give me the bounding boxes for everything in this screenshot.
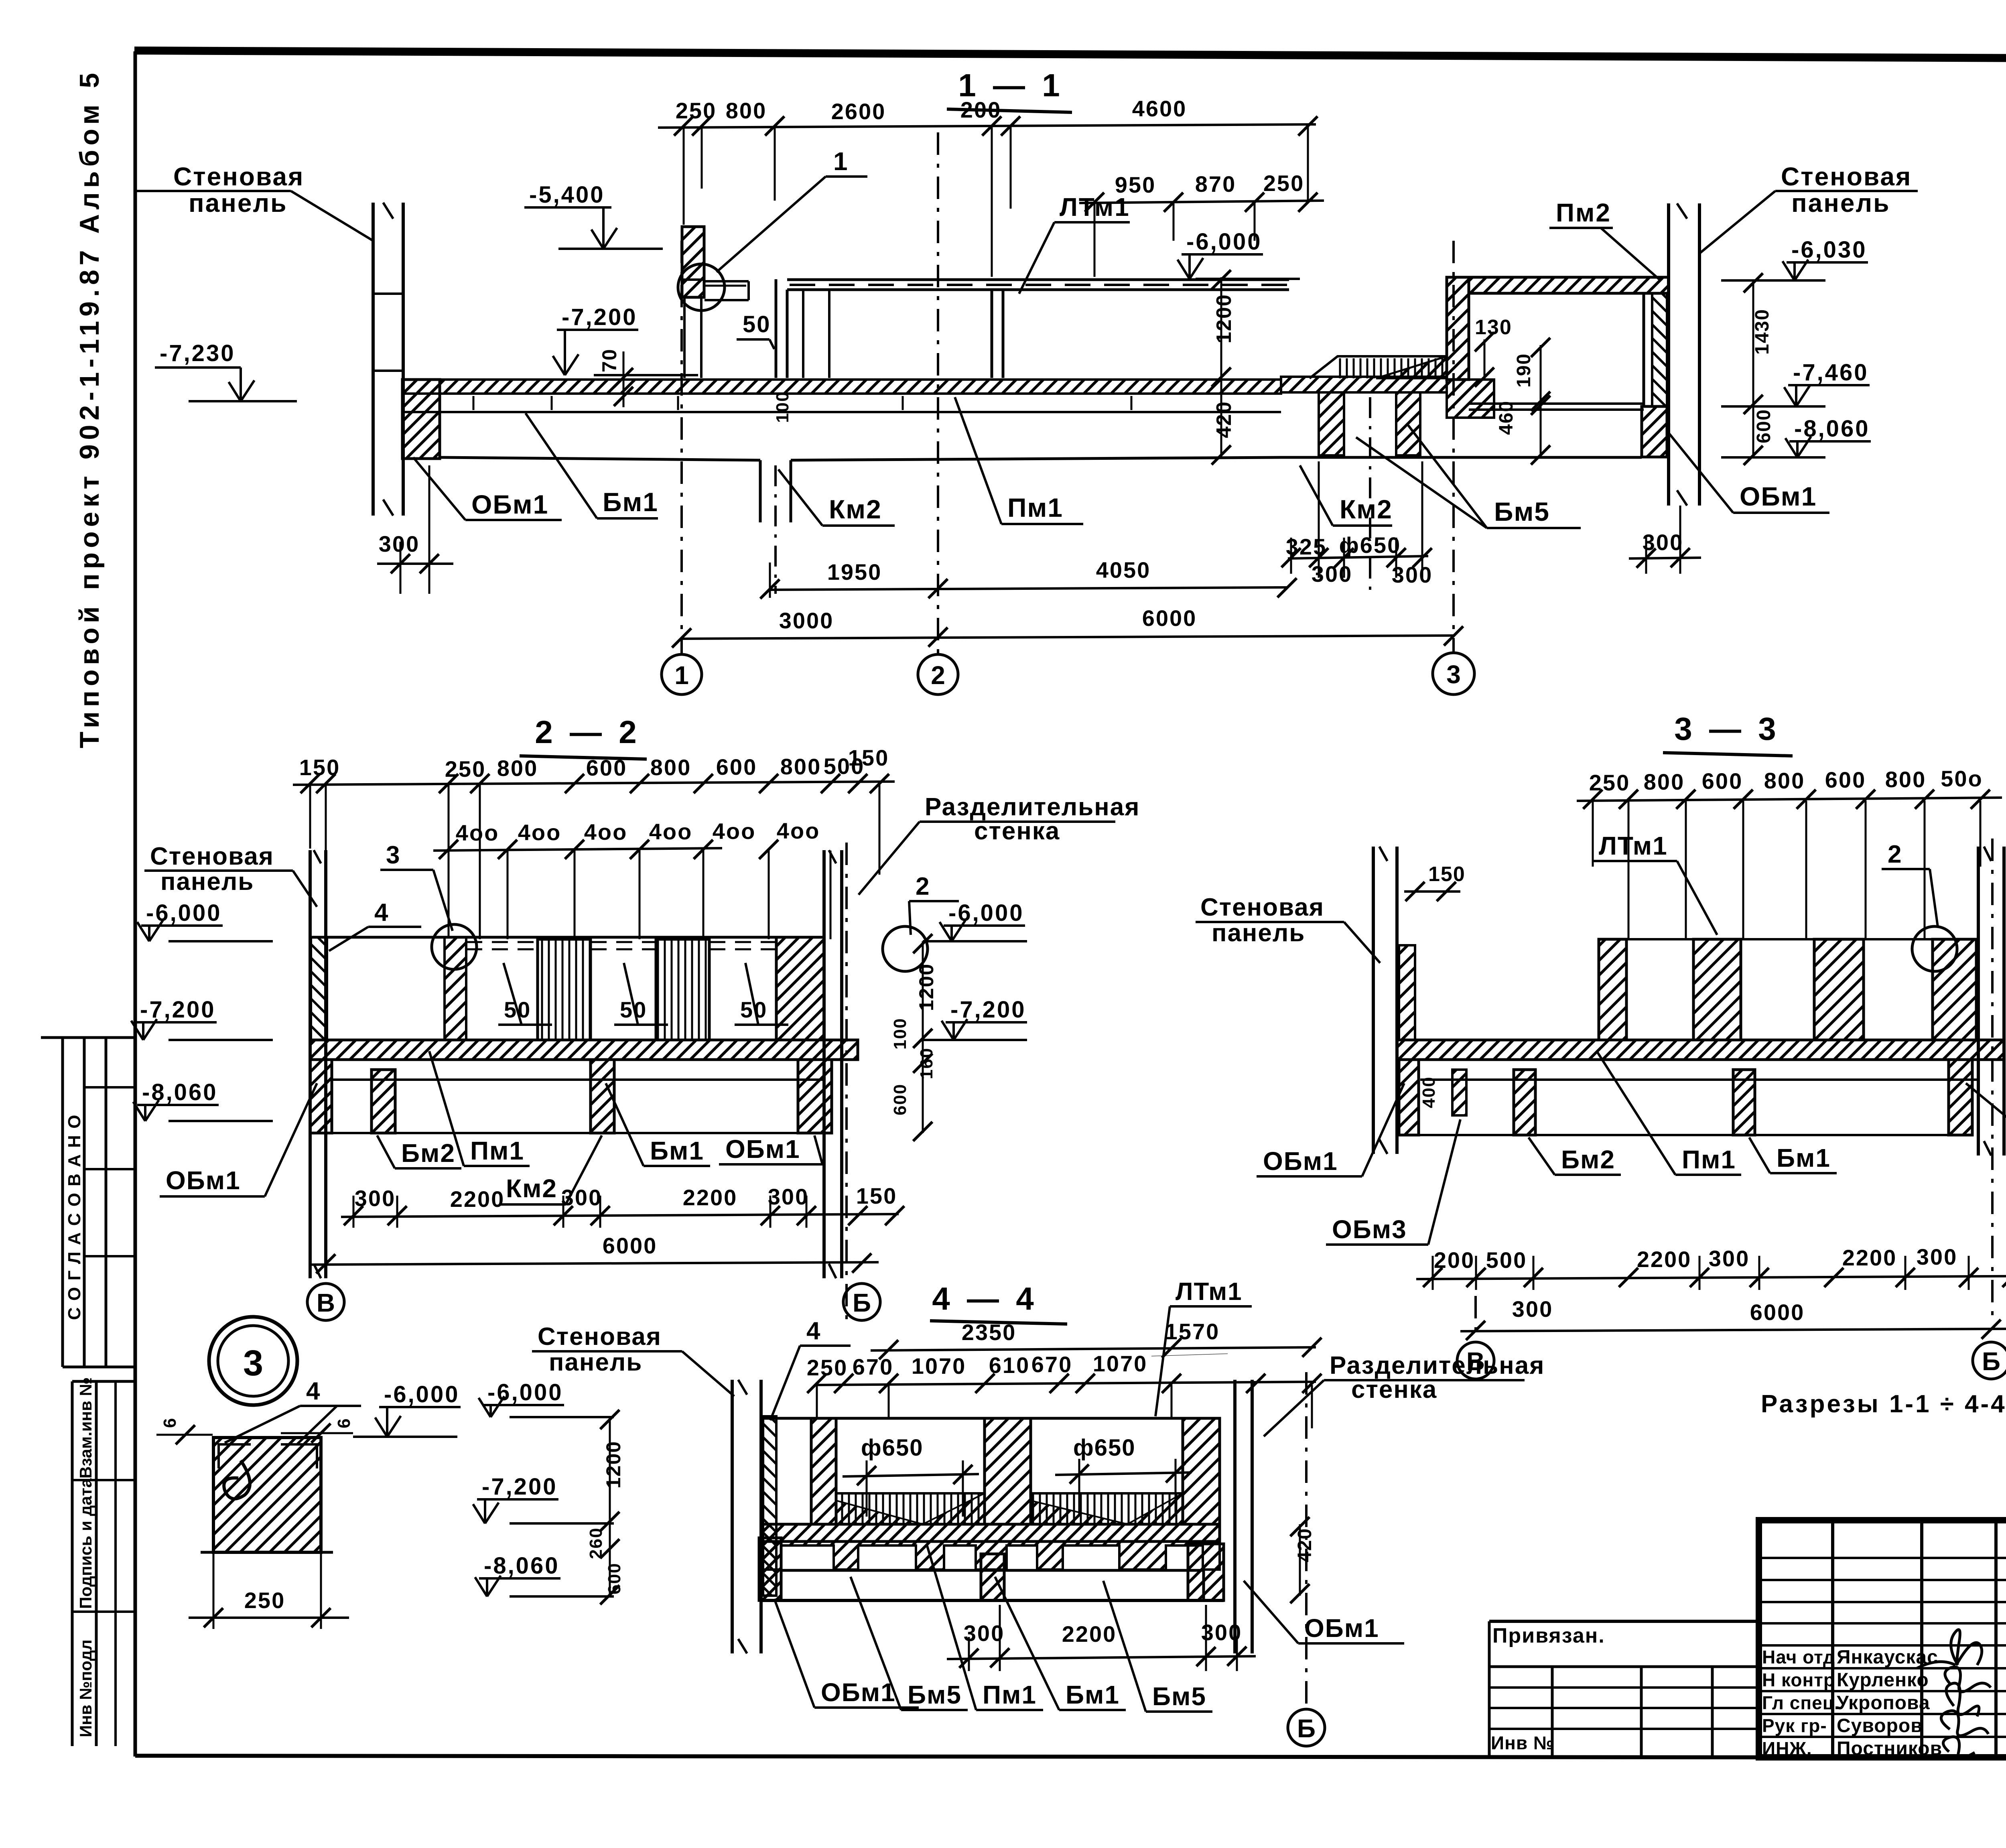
- svg-text:панель: панель: [160, 868, 254, 896]
- svg-text:100: 100: [890, 1018, 910, 1050]
- svg-text:300: 300: [379, 531, 420, 556]
- svg-text:2200: 2200: [1062, 1621, 1117, 1647]
- svg-text:600: 600: [586, 755, 627, 780]
- svg-text:Н контр: Н контр: [1762, 1669, 1835, 1690]
- svg-text:ЛТм1: ЛТм1: [1176, 1278, 1243, 1306]
- svg-text:-8,060: -8,060: [484, 1553, 559, 1579]
- svg-text:420: 420: [1212, 401, 1236, 438]
- svg-text:панель: панель: [1212, 919, 1305, 947]
- svg-text:-7,230: -7,230: [160, 340, 235, 366]
- svg-text:4: 4: [374, 899, 388, 926]
- svg-text:150: 150: [848, 745, 889, 770]
- svg-text:600: 600: [1825, 767, 1866, 792]
- svg-text:300: 300: [355, 1186, 396, 1211]
- svg-text:Гл спец.: Гл спец.: [1762, 1692, 1840, 1713]
- svg-text:ИНЖ.: ИНЖ.: [1762, 1738, 1812, 1759]
- svg-text:Разделительная: Разделительная: [925, 793, 1140, 821]
- svg-text:6: 6: [334, 1419, 354, 1428]
- svg-text:1: 1: [833, 147, 848, 176]
- svg-text:Стеновая: Стеновая: [150, 843, 274, 870]
- svg-text:670: 670: [853, 1354, 893, 1379]
- svg-text:Пм1: Пм1: [470, 1136, 524, 1165]
- svg-text:150: 150: [299, 755, 340, 780]
- svg-text:670: 670: [1031, 1352, 1072, 1377]
- svg-text:3: 3: [243, 1343, 263, 1383]
- svg-text:2200: 2200: [1637, 1247, 1692, 1272]
- svg-text:610: 610: [989, 1352, 1030, 1378]
- svg-text:250: 250: [244, 1588, 285, 1613]
- svg-text:Стеновая: Стеновая: [1200, 894, 1324, 921]
- svg-text:2: 2: [1888, 841, 1901, 868]
- svg-text:Пм1: Пм1: [1007, 493, 1063, 522]
- svg-text:Типовой проект 902-1-119.87: Типовой проект 902-1-119.87 Альбом 5: [74, 69, 105, 748]
- svg-text:2200: 2200: [1842, 1245, 1897, 1270]
- svg-text:4oo: 4oo: [518, 820, 562, 845]
- svg-text:ЛТм1: ЛТм1: [1060, 193, 1130, 221]
- svg-text:800: 800: [1885, 767, 1926, 792]
- svg-text:800: 800: [650, 755, 691, 780]
- svg-text:250: 250: [1263, 171, 1304, 196]
- svg-text:3: 3: [386, 841, 400, 869]
- svg-text:4oo: 4oo: [584, 819, 628, 845]
- svg-text:4: 4: [306, 1377, 320, 1405]
- svg-text:800: 800: [780, 754, 821, 779]
- svg-text:600: 600: [1753, 409, 1775, 443]
- svg-text:4050: 4050: [1096, 557, 1151, 583]
- svg-text:3000: 3000: [779, 608, 834, 633]
- svg-text:Стеновая: Стеновая: [1781, 162, 1912, 191]
- svg-text:-8,060: -8,060: [142, 1079, 217, 1105]
- svg-text:4oo: 4oo: [649, 819, 693, 844]
- svg-text:стенка: стенка: [1351, 1376, 1437, 1403]
- svg-text:600: 600: [1702, 768, 1743, 794]
- svg-text:Б: Б: [1982, 1347, 2000, 1376]
- svg-text:Бм5: Бм5: [1494, 497, 1550, 526]
- svg-text:Км2: Км2: [829, 494, 882, 524]
- svg-text:-6,000: -6,000: [1186, 229, 1262, 255]
- svg-text:Инв №подл: Инв №подл: [76, 1639, 95, 1737]
- svg-text:Рук гр-: Рук гр-: [1762, 1715, 1827, 1736]
- svg-text:4oo: 4oo: [777, 818, 820, 843]
- svg-text:ОБм1: ОБм1: [471, 489, 548, 519]
- svg-text:ЛТм1: ЛТм1: [1599, 831, 1668, 860]
- svg-text:800: 800: [1764, 768, 1805, 793]
- svg-text:300: 300: [1709, 1246, 1750, 1271]
- svg-text:2 — 2: 2 — 2: [535, 714, 640, 750]
- svg-text:3: 3: [1446, 660, 1461, 689]
- svg-text:130: 130: [1475, 316, 1512, 339]
- svg-text:3 — 3: 3 — 3: [1674, 711, 1780, 747]
- svg-text:1200: 1200: [1212, 294, 1236, 343]
- svg-text:1: 1: [674, 661, 689, 690]
- svg-text:Бм2: Бм2: [401, 1139, 455, 1168]
- svg-text:1070: 1070: [912, 1353, 966, 1379]
- svg-text:Км2: Км2: [506, 1174, 557, 1203]
- svg-text:1070: 1070: [1093, 1351, 1148, 1376]
- svg-text:600: 600: [890, 1084, 910, 1115]
- svg-text:1950: 1950: [827, 559, 882, 585]
- svg-text:6000: 6000: [1142, 605, 1197, 631]
- svg-text:800: 800: [497, 755, 538, 781]
- svg-text:Бм1: Бм1: [650, 1136, 704, 1165]
- svg-text:300: 300: [1392, 562, 1433, 587]
- svg-text:-7,200: -7,200: [950, 997, 1026, 1023]
- svg-text:1200: 1200: [602, 1441, 625, 1489]
- svg-text:Бм5: Бм5: [908, 1680, 962, 1709]
- svg-text:4600: 4600: [1132, 96, 1187, 121]
- svg-text:Суворов: Суворов: [1837, 1715, 1923, 1736]
- svg-text:300: 300: [561, 1185, 602, 1210]
- svg-text:870: 870: [1195, 171, 1236, 197]
- svg-text:150: 150: [1428, 863, 1466, 886]
- svg-text:600: 600: [716, 754, 757, 780]
- svg-text:панель: панель: [189, 189, 288, 217]
- svg-text:-7,200: -7,200: [562, 304, 637, 330]
- svg-text:1570: 1570: [1165, 1319, 1220, 1344]
- svg-text:ОБм3: ОБм3: [1332, 1215, 1407, 1244]
- svg-text:150: 150: [856, 1183, 897, 1208]
- svg-text:50: 50: [743, 311, 771, 337]
- svg-text:2200: 2200: [450, 1186, 505, 1212]
- svg-text:-7,200: -7,200: [140, 997, 215, 1023]
- svg-text:Б: Б: [853, 1288, 871, 1317]
- svg-text:-6,000: -6,000: [487, 1379, 563, 1405]
- svg-text:-5,400: -5,400: [529, 182, 605, 208]
- svg-text:500: 500: [1486, 1247, 1527, 1273]
- svg-text:6000: 6000: [603, 1233, 658, 1258]
- svg-text:460: 460: [1496, 400, 1517, 435]
- svg-text:2200: 2200: [683, 1185, 738, 1210]
- svg-text:-6,000: -6,000: [384, 1381, 459, 1407]
- svg-text:250: 250: [676, 98, 717, 123]
- svg-text:Стеновая: Стеновая: [173, 162, 304, 191]
- svg-text:2600: 2600: [831, 99, 886, 124]
- svg-text:300: 300: [768, 1184, 809, 1209]
- svg-text:100: 100: [773, 391, 792, 423]
- svg-text:ОБм1: ОБм1: [1263, 1147, 1338, 1176]
- svg-text:Укропова: Укропова: [1837, 1692, 1930, 1714]
- svg-text:Постников: Постников: [1837, 1738, 1942, 1759]
- svg-text:Курленко: Курленко: [1837, 1669, 1929, 1691]
- svg-text:1200: 1200: [915, 963, 938, 1011]
- svg-text:-7,200: -7,200: [482, 1474, 557, 1500]
- svg-text:-8,060: -8,060: [1794, 416, 1870, 442]
- svg-text:ОБм1: ОБм1: [821, 1678, 896, 1707]
- svg-text:ф650: ф650: [1073, 1435, 1136, 1461]
- svg-text:-6,030: -6,030: [1791, 237, 1867, 263]
- svg-text:Инв №: Инв №: [1491, 1732, 1554, 1753]
- svg-text:Разделительная: Разделительная: [1330, 1352, 1545, 1379]
- svg-text:ф650: ф650: [861, 1435, 924, 1461]
- svg-text:В: В: [317, 1288, 335, 1317]
- svg-text:400: 400: [1419, 1076, 1439, 1108]
- svg-text:4oo: 4oo: [713, 818, 756, 844]
- svg-text:4 — 4: 4 — 4: [932, 1281, 1038, 1316]
- svg-text:300: 300: [1917, 1244, 1957, 1269]
- svg-text:ОБм1: ОБм1: [1304, 1614, 1379, 1643]
- svg-text:Пм1: Пм1: [1682, 1145, 1736, 1174]
- svg-text:200: 200: [1434, 1247, 1475, 1273]
- svg-text:250: 250: [1589, 770, 1630, 795]
- svg-text:-7,460: -7,460: [1793, 359, 1868, 386]
- svg-text:2: 2: [931, 661, 945, 690]
- svg-text:800: 800: [1644, 769, 1685, 794]
- svg-text:250: 250: [807, 1355, 848, 1380]
- svg-text:1430: 1430: [1752, 309, 1773, 355]
- svg-text:2350: 2350: [962, 1320, 1017, 1345]
- svg-text:70: 70: [598, 348, 621, 372]
- svg-text:ОБм1: ОБм1: [725, 1135, 800, 1164]
- svg-text:ОБм1: ОБм1: [166, 1166, 241, 1195]
- svg-text:Бм1: Бм1: [1777, 1143, 1831, 1172]
- svg-text:Подпись и дата: Подпись и дата: [76, 1478, 95, 1609]
- svg-text:Б: Б: [1297, 1714, 1316, 1743]
- svg-text:Км2: Км2: [1340, 494, 1393, 524]
- svg-text:50o: 50o: [1941, 766, 1983, 791]
- svg-text:300: 300: [1512, 1296, 1553, 1322]
- svg-text:Бм1: Бм1: [1066, 1680, 1120, 1709]
- svg-text:панель: панель: [549, 1348, 642, 1376]
- svg-text:160: 160: [917, 1048, 936, 1079]
- svg-text:2: 2: [916, 873, 929, 900]
- svg-text:Привязан.: Привязан.: [1492, 1624, 1605, 1647]
- svg-text:250: 250: [445, 756, 486, 782]
- svg-text:4: 4: [806, 1317, 820, 1345]
- svg-text:300: 300: [1643, 530, 1683, 555]
- svg-text:Бм1: Бм1: [603, 487, 658, 517]
- svg-text:200: 200: [960, 97, 1001, 122]
- svg-text:С О Г Л А С О В А Н О: С О Г Л А С О В А Н О: [65, 1114, 84, 1320]
- svg-text:Разрезы 1-1 ÷ 4-4 замаркиров: Разрезы 1-1 ÷ 4-4 замаркированы на листе…: [1761, 1390, 2006, 1418]
- svg-text:800: 800: [726, 98, 767, 123]
- svg-text:4oo: 4oo: [456, 820, 499, 845]
- svg-text:190: 190: [1513, 353, 1535, 388]
- svg-text:Пм1: Пм1: [983, 1680, 1037, 1709]
- svg-text:420: 420: [1294, 1528, 1316, 1562]
- svg-text:Взам.инв №: Взам.инв №: [76, 1377, 95, 1478]
- svg-text:-6,000: -6,000: [146, 900, 221, 926]
- svg-text:-6,000: -6,000: [948, 900, 1024, 926]
- svg-text:Бм2: Бм2: [1561, 1145, 1615, 1174]
- svg-text:Нач отд: Нач отд: [1762, 1647, 1835, 1667]
- svg-text:Бм5: Бм5: [1152, 1682, 1206, 1711]
- svg-text:300: 300: [1312, 561, 1352, 587]
- svg-text:Пм2: Пм2: [1556, 198, 1611, 227]
- svg-text:6000: 6000: [1750, 1300, 1805, 1325]
- svg-text:6: 6: [160, 1418, 180, 1428]
- svg-text:Стеновая: Стеновая: [538, 1323, 662, 1350]
- svg-text:панель: панель: [1791, 189, 1890, 217]
- svg-text:ОБм1: ОБм1: [1740, 481, 1817, 511]
- svg-text:стенка: стенка: [974, 817, 1060, 845]
